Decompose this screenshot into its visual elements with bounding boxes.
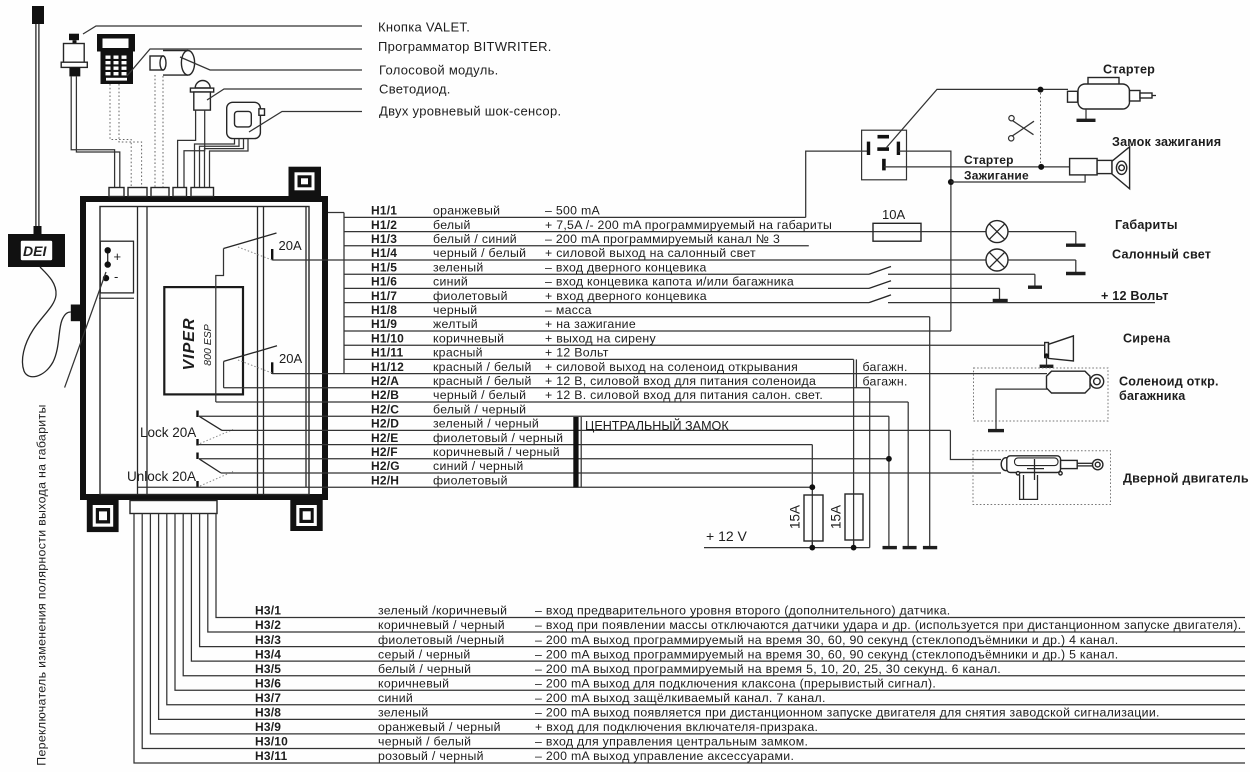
svg-text:черный / белый: черный / белый	[378, 735, 471, 749]
ground wire from H1/8	[923, 317, 937, 548]
BITWRITER programmer	[97, 34, 135, 84]
svg-text:H3/3: H3/3	[255, 633, 281, 647]
svg-text:фиолетовый / черный: фиолетовый / черный	[433, 431, 563, 445]
svg-text:зеленый: зеленый	[433, 260, 484, 274]
wire H2/H (фиолетовый)	[371, 473, 508, 487]
svg-text:Замок зажигания: Замок зажигания	[1112, 135, 1221, 149]
fuse 20A #1 (interior light)	[216, 233, 302, 402]
VIPER 800 ESP label box	[164, 287, 243, 394]
svg-text:+: +	[114, 249, 122, 264]
leader to bitwriter label	[127, 49, 362, 76]
fuse 10A	[873, 207, 921, 241]
wire H2/F (коричневый / черный)	[371, 445, 560, 459]
wire H2/D segment	[222, 429, 950, 431]
wire H1/4 from fuse	[272, 259, 986, 261]
svg-text:+ 12 В. силовой вход для питан: + 12 В. силовой вход для питания салон. …	[545, 388, 823, 402]
scissors	[1009, 116, 1035, 142]
svg-text:Переключатель изменения полярн: Переключатель изменения полярности выход…	[34, 404, 48, 765]
svg-text:H2/A: H2/A	[371, 374, 399, 388]
svg-text:+ 7,5A /- 200 mA программиру: + 7,5A /- 200 mA программируемый на габа…	[545, 218, 832, 232]
ignition feed wire	[951, 175, 1085, 182]
svg-text:черный: черный	[433, 303, 477, 317]
relay armature wire to starter	[886, 89, 1068, 148]
leader to LED label	[207, 89, 362, 100]
svg-text:+ силовой выход на соленоид: + силовой выход на соленоид открывания	[545, 360, 798, 374]
svg-text:фиолетовый: фиолетовый	[433, 473, 508, 487]
wire H1/1 (оранжевый)	[344, 204, 806, 218]
svg-text:– вход для управления централь: – вход для управления центральным замком…	[535, 735, 808, 749]
svg-text:Стартер: Стартер	[1103, 63, 1155, 77]
svg-text:– вход дверного концевика: – вход дверного концевика	[545, 260, 707, 274]
svg-text:20A: 20A	[279, 238, 302, 253]
svg-text:H2/G: H2/G	[371, 459, 400, 473]
svg-text:-: -	[114, 269, 118, 284]
voice module	[150, 51, 195, 76]
svg-text:черный / белый: черный / белый	[433, 388, 526, 402]
svg-text:H3/9: H3/9	[255, 720, 281, 734]
svg-text:H1/9: H1/9	[371, 317, 397, 331]
svg-text:H3/6: H3/6	[255, 677, 281, 691]
svg-text:багажн.: багажн.	[863, 374, 908, 388]
svg-text:15A: 15A	[829, 505, 844, 529]
svg-text:фиолетовый: фиолетовый	[433, 289, 508, 303]
wire H2/C segment	[199, 415, 889, 417]
svg-text:Габариты: Габариты	[1115, 218, 1178, 232]
wire H3/8 (зеленый)	[159, 514, 1245, 720]
svg-text:H1/6: H1/6	[371, 275, 397, 289]
wire H1/3 (белый / синий)	[344, 232, 809, 246]
svg-text:багажн.: багажн.	[863, 360, 908, 374]
svg-text:Кнопка VALET.: Кнопка VALET.	[378, 20, 470, 35]
H3 bottom connector	[130, 501, 217, 514]
wire H3/9 (оранжевый / черный)	[150, 514, 1245, 735]
svg-text:H2/E: H2/E	[371, 431, 398, 445]
wire H2/A down to rail	[869, 388, 871, 548]
svg-text:Программатор BITWRITER.: Программатор BITWRITER.	[378, 39, 552, 54]
svg-text:+ 12 В, силовой вход для пи: + 12 В, силовой вход для питания соленои…	[545, 374, 816, 388]
svg-text:– вход концевика капота и/или: – вход концевика капота и/или багажника	[545, 275, 794, 289]
trunk column separator	[855, 359, 857, 387]
ground wire from H2/B	[903, 402, 917, 548]
svg-text:H3/10: H3/10	[255, 735, 288, 749]
cut wire (dashed)	[1040, 93, 1042, 163]
svg-text:желтый: желтый	[433, 317, 478, 331]
svg-text:– 200 mA выход защёлкиваемый к: – 200 mA выход защёлкиваемый канал. 7 ка…	[535, 691, 826, 705]
junction node ignition branch	[948, 179, 954, 185]
svg-text:10A: 10A	[882, 207, 905, 222]
remote cord	[22, 267, 70, 377]
svg-text:+ на зажигание: + на зажигание	[545, 317, 636, 331]
junction node H2/H	[809, 484, 815, 490]
wire H2/G segment	[221, 472, 1001, 474]
svg-text:Unlock 20A: Unlock 20A	[127, 469, 196, 484]
svg-text:H1/7: H1/7	[371, 289, 397, 303]
svg-text:– 200 mA выход управление аксе: – 200 mA выход управление аксессуарами.	[535, 749, 794, 763]
svg-text:Соленоид откр.: Соленоид откр.	[1119, 375, 1219, 389]
wire H3/5 (белый / черный)	[183, 514, 1245, 676]
inner panel right edge	[305, 207, 307, 488]
svg-text:– масса: – масса	[545, 303, 592, 317]
wire H1/8 (черный)	[344, 303, 930, 317]
svg-text:Дверной двигатель: Дверной двигатель	[1123, 472, 1249, 486]
wire H2/D (зеленый / черный)	[371, 417, 539, 431]
wire H2/E segment	[198, 444, 813, 446]
wire H1/9 (желтый)	[344, 317, 951, 331]
svg-text:– 200 mA выход для подключения: – 200 mA выход для подключения клаксона …	[535, 677, 936, 691]
antenna	[32, 6, 44, 234]
wire relay right pin down to H1/9	[898, 151, 951, 331]
svg-text:H2/H: H2/H	[371, 473, 399, 487]
wire H2/D to door motor	[950, 430, 1001, 459]
svg-text:оранжевый: оранжевый	[433, 204, 500, 218]
svg-text:H3/5: H3/5	[255, 662, 281, 676]
wire H1/12 from fuse to trunk solenoid	[272, 373, 1047, 375]
wire H3/10 (черный / белый)	[142, 514, 1245, 749]
wire H2/E down to fuse 15A A	[811, 445, 813, 548]
wire H1/2 (белый)	[344, 218, 986, 232]
parking lights ground	[1066, 232, 1086, 246]
BITWRITER wires (dotted)	[110, 84, 142, 188]
door switch H1/5 ground	[1028, 274, 1042, 287]
starter motor	[1068, 78, 1157, 110]
interior light ground	[1066, 260, 1086, 274]
main unit VIPER 800 ESP outer case	[83, 199, 325, 497]
wire H2/B segment	[216, 401, 908, 403]
svg-text:белый / синий: белый / синий	[433, 232, 517, 246]
svg-text:красный / белый: красный / белый	[433, 360, 532, 374]
svg-text:коричневый: коричневый	[378, 677, 449, 691]
svg-text:H1/1: H1/1	[371, 204, 397, 218]
wire H3/3 (фиолетовый /черный)	[200, 514, 1245, 647]
wire H1/11 down to fuse 15A B	[853, 359, 855, 547]
antenna connector on unit wall	[71, 305, 85, 322]
svg-text:Голосовой модуль.: Голосовой модуль.	[379, 63, 499, 78]
wire H2/C (белый / черный)	[371, 402, 526, 416]
svg-text:– 200 mA выход программируемый: – 200 mA выход программируемый на время …	[535, 647, 1118, 661]
hood switch H1/6	[869, 281, 1000, 289]
svg-text:VIPER: VIPER	[181, 317, 198, 370]
svg-text:DEI: DEI	[23, 243, 47, 259]
svg-text:H1/5: H1/5	[371, 260, 397, 274]
valet button wire	[71, 76, 120, 188]
svg-text:+ вход для подключения включат: + вход для подключения включателя-призра…	[535, 720, 818, 734]
svg-text:багажника: багажника	[1119, 389, 1186, 403]
harness bus from unit to H1 rows	[328, 213, 344, 374]
wire relay to ignition (starter line)	[884, 166, 1070, 168]
leader to shock sensor label	[249, 112, 362, 133]
svg-text:коричневый / черный: коричневый / черный	[378, 618, 505, 632]
wire H3/6 (коричневый)	[175, 514, 1245, 691]
wire H1/1 to relay	[806, 151, 867, 217]
mounting tab bottom-right	[290, 500, 322, 531]
svg-text:H1/8: H1/8	[371, 303, 397, 317]
svg-text:Стартер: Стартер	[964, 153, 1014, 167]
svg-text:красный: красный	[433, 346, 483, 360]
voice module wires (dotted)	[155, 75, 163, 188]
door switch H1/7	[869, 295, 1155, 303]
fuse 15A A	[788, 495, 823, 541]
svg-text:оранжевый / черный: оранжевый / черный	[378, 720, 501, 734]
siren ground	[1040, 356, 1054, 367]
wire H1/11 (красный)	[344, 346, 854, 360]
pointer line from terminal box	[65, 272, 106, 388]
power/valet terminal box with +/-	[99, 241, 134, 298]
starter ground	[1077, 109, 1096, 120]
svg-text:+ 12 Вольт: + 12 Вольт	[545, 346, 609, 360]
wire H3/1 (зеленый /коричневый)	[216, 514, 1245, 618]
svg-text:серый / черный: серый / черный	[378, 647, 471, 661]
wire H1/5 (зеленый)	[344, 260, 869, 274]
svg-text:H1/4: H1/4	[371, 246, 397, 260]
svg-text:белый / черный: белый / черный	[433, 402, 526, 416]
svg-text:черный / белый: черный / белый	[433, 246, 526, 260]
wire H2/F segment	[199, 458, 889, 460]
ground wire from H2/C	[883, 416, 897, 547]
fuse 20A #2 (trunk solenoid)	[224, 346, 303, 388]
shock sensor wires	[195, 139, 249, 188]
wire H2/E (фиолетовый / черный)	[371, 431, 563, 445]
door switch H1/5	[869, 267, 1035, 275]
svg-text:Lock 20A: Lock 20A	[140, 425, 196, 440]
trunk solenoid dashed box	[974, 368, 1109, 421]
svg-text:ЦЕНТРАЛЬНЫЙ ЗАМОК: ЦЕНТРАЛЬНЫЙ ЗАМОК	[585, 418, 729, 433]
junction node (bottom of cut wire)	[1038, 164, 1044, 170]
fuse 15A B	[829, 494, 863, 540]
svg-text:– 500 mA: – 500 mA	[545, 204, 601, 218]
wire H2/H segment	[138, 486, 812, 488]
svg-text:зеленый: зеленый	[378, 706, 429, 720]
svg-text:Зажигание: Зажигание	[964, 169, 1029, 183]
LED	[190, 81, 213, 111]
junction node H2/F-H2/C	[886, 456, 892, 462]
svg-text:H1/2: H1/2	[371, 218, 397, 232]
door motor dashed box	[973, 451, 1111, 505]
trunk solenoid	[1047, 371, 1104, 393]
svg-text:синий: синий	[433, 275, 468, 289]
inner divider left pair	[138, 207, 148, 495]
svg-text:H1/11: H1/11	[371, 346, 403, 360]
svg-text:15A: 15A	[788, 505, 803, 529]
svg-text:– 200 mA выход программируемый: – 200 mA выход программируемый на время …	[535, 662, 1001, 676]
svg-text:H1/3: H1/3	[371, 232, 397, 246]
remote control (DEI transmitter)	[8, 234, 65, 267]
svg-text:Светодиод.: Светодиод.	[379, 82, 451, 97]
relay K1	[862, 130, 907, 180]
svg-text:H3/1: H3/1	[255, 604, 281, 618]
wire H1/12 (красный / белый)	[371, 360, 798, 374]
svg-text:– 200 mA выход программируемый: – 200 mA выход программируемый на время …	[535, 633, 1118, 647]
leader to voice module label	[180, 57, 362, 70]
svg-text:– вход при появлении массы от: – вход при появлении массы отключаются д…	[535, 618, 1241, 632]
LED wires	[178, 110, 205, 188]
svg-text:H3/2: H3/2	[255, 618, 281, 632]
svg-text:фиолетовый /черный: фиолетовый /черный	[378, 633, 505, 647]
svg-text:Двух уровневый шок-сенсор.: Двух уровневый шок-сенсор.	[379, 104, 561, 119]
top connector stubs	[109, 188, 214, 197]
mounting tab top-right	[289, 167, 322, 196]
siren junction node	[1044, 353, 1049, 358]
svg-text:синий / черный: синий / черный	[433, 459, 524, 473]
wire H3/7 (синий)	[167, 514, 1245, 706]
svg-text:800 ESP: 800 ESP	[202, 324, 214, 365]
svg-text:H3/7: H3/7	[255, 691, 281, 705]
svg-text:синий: синий	[378, 691, 413, 705]
Unlock relay switch	[198, 453, 234, 488]
mounting tab bottom-left	[87, 500, 119, 532]
siren	[1045, 336, 1074, 361]
Lock relay switch	[198, 411, 234, 446]
svg-text:коричневый: коричневый	[433, 331, 504, 345]
svg-text:H2/B: H2/B	[371, 388, 399, 402]
svg-text:H3/8: H3/8	[255, 706, 281, 720]
svg-text:H3/4: H3/4	[255, 647, 281, 661]
shock sensor (two-level)	[227, 102, 265, 138]
svg-text:+ силовой выход на салонный св: + силовой выход на салонный свет	[545, 246, 756, 260]
svg-text:H1/10: H1/10	[371, 331, 404, 345]
svg-text:белый: белый	[433, 218, 471, 232]
wire H1/10 (коричневый)	[344, 331, 1045, 345]
svg-text:+ 12 V: + 12 V	[706, 528, 748, 544]
svg-text:H2/F: H2/F	[371, 445, 398, 459]
wire H3/11 (розовый / черный)	[134, 514, 1245, 764]
svg-text:красный / белый: красный / белый	[433, 374, 532, 388]
svg-text:20A: 20A	[279, 351, 302, 366]
inner divider center pair	[258, 207, 264, 495]
svg-text:– 200 mA программируемый кана: – 200 mA программируемый канал № 3	[545, 232, 780, 246]
lamp parking lights	[986, 221, 1076, 243]
svg-text:белый / черный: белый / черный	[378, 662, 471, 676]
solenoid ground wire	[988, 389, 1048, 431]
wire H1/6 (синий)	[344, 275, 869, 289]
svg-text:– вход предварительного уровня: – вход предварительного уровня второго (…	[535, 604, 951, 618]
hood switch ground	[993, 288, 1008, 300]
wire H1/7 (фиолетовый)	[344, 289, 869, 303]
ignition lock	[1070, 147, 1130, 189]
svg-text:розовый / черный: розовый / черный	[378, 749, 484, 763]
svg-text:+ выход на сирену: + выход на сирену	[545, 331, 656, 345]
svg-text:H2/C: H2/C	[371, 402, 399, 416]
leader to valet label	[83, 26, 362, 34]
valet button	[61, 34, 87, 77]
wire H3/4 (серый / черный)	[191, 514, 1245, 662]
lamp interior light	[986, 249, 1076, 271]
wire H2/A (красный / белый)	[371, 374, 816, 388]
svg-text:+ 12 Вольт: + 12 Вольт	[1101, 289, 1169, 303]
wire H3/2 (коричневый / черный)	[208, 514, 1245, 633]
svg-text:H3/11: H3/11	[255, 749, 287, 763]
svg-text:Салонный свет: Салонный свет	[1112, 248, 1211, 262]
wire H2/G (синий / черный)	[371, 459, 524, 473]
wire H2/B (черный / белый)	[371, 388, 823, 402]
wire H1/4 (черный / белый)	[371, 246, 756, 260]
svg-text:зеленый / черный: зеленый / черный	[433, 417, 539, 431]
svg-text:Сирена: Сирена	[1123, 332, 1171, 346]
svg-text:H1/12: H1/12	[371, 360, 404, 374]
svg-text:+ вход дверного концевика: + вход дверного концевика	[545, 289, 707, 303]
central lock bracket	[573, 417, 581, 487]
svg-text:коричневый / черный: коричневый / черный	[433, 445, 560, 459]
main unit inner panel	[100, 207, 309, 495]
svg-text:– 200 mA выход появляется при: – 200 mA выход появляется при дистанцион…	[535, 706, 1160, 720]
wire H2/A segment	[224, 387, 870, 389]
+12V supply rail	[704, 540, 870, 550]
junction node (top of cut wire)	[1038, 87, 1044, 93]
svg-text:зеленый /коричневый: зеленый /коричневый	[378, 604, 507, 618]
door motor	[1001, 456, 1103, 500]
svg-text:H2/D: H2/D	[371, 417, 399, 431]
